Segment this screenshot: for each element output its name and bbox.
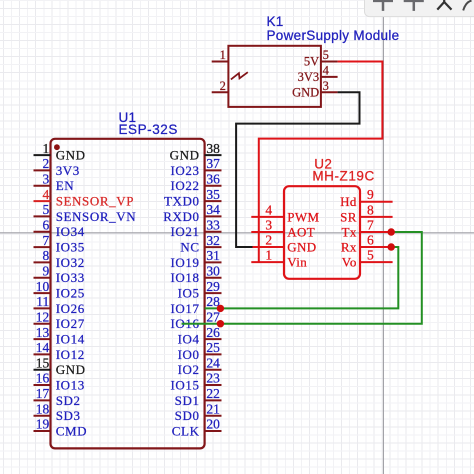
svg-text:EN: EN — [56, 178, 75, 193]
svg-text:IO4: IO4 — [178, 332, 200, 347]
svg-text:SD0: SD0 — [175, 408, 200, 423]
floating toolbar — [365, 0, 474, 17]
wire net IO16 to U2 Tx — [182, 232, 422, 324]
svg-text:12: 12 — [36, 309, 50, 324]
U1 pin 23 IO15 — [170, 371, 221, 393]
svg-text:11: 11 — [36, 294, 49, 309]
svg-text:IO23: IO23 — [170, 163, 199, 178]
svg-text:GND: GND — [56, 148, 86, 163]
svg-text:2: 2 — [220, 79, 226, 93]
U1 pin-1 marker dot — [54, 144, 60, 150]
svg-text:IO22: IO22 — [170, 178, 199, 193]
U1 pin 35 TXD0 — [164, 187, 222, 209]
svg-text:IO12: IO12 — [56, 347, 85, 362]
svg-text:37: 37 — [206, 156, 220, 171]
svg-text:36: 36 — [206, 172, 220, 187]
svg-text:4: 4 — [43, 187, 50, 202]
svg-text:SD3: SD3 — [56, 408, 81, 423]
U1 pin 22 SD1 — [175, 386, 222, 408]
junction dot at U1 pin27 — [217, 320, 224, 327]
svg-text:IO14: IO14 — [56, 332, 85, 347]
U1 pin 10 IO25 — [34, 279, 85, 301]
svg-text:15: 15 — [36, 355, 50, 370]
U1 pin 4 SENSOR_VP — [34, 187, 135, 209]
U1 pin 3 EN — [34, 172, 75, 194]
U1 pin 31 IO19 — [170, 248, 221, 270]
svg-text:29: 29 — [206, 279, 220, 294]
svg-text:Vo: Vo — [342, 255, 357, 270]
K1 pin 3 GND — [292, 79, 337, 100]
U2 pin 4 PWM — [251, 202, 319, 224]
svg-text:30: 30 — [206, 263, 220, 278]
svg-text:7: 7 — [367, 217, 374, 232]
K1 pin 2 — [212, 79, 229, 93]
svg-text:19: 19 — [36, 417, 50, 432]
svg-text:IO2: IO2 — [178, 362, 200, 377]
svg-text:33: 33 — [206, 217, 220, 232]
junction dot at U2 Rx — [388, 243, 395, 250]
svg-text:38: 38 — [206, 141, 220, 156]
svg-text:14: 14 — [36, 340, 50, 355]
toolbar pencil icon — [463, 1, 471, 11]
U1 pin 38 GND — [170, 141, 222, 163]
U1 pin 21 SD0 — [175, 401, 222, 423]
svg-text:SENSOR_VP: SENSOR_VP — [56, 194, 134, 209]
svg-text:24: 24 — [206, 355, 220, 370]
svg-text:18: 18 — [36, 401, 50, 416]
U1 pin 29 IO5 — [178, 279, 222, 301]
svg-text:SD2: SD2 — [56, 393, 81, 408]
svg-text:5: 5 — [367, 248, 374, 263]
U2 pin 3 AOT — [251, 217, 315, 239]
svg-text:4: 4 — [265, 202, 272, 217]
wire net IO17 to U2 Rx — [205, 247, 399, 308]
sensor U2 MH-Z19C body — [284, 186, 360, 279]
svg-text:3: 3 — [265, 217, 272, 232]
svg-text:IO15: IO15 — [170, 377, 199, 392]
svg-text:2: 2 — [265, 232, 272, 247]
svg-text:SR: SR — [340, 209, 357, 224]
U1 pin 15 GND — [34, 355, 86, 377]
svg-text:5: 5 — [43, 202, 50, 217]
svg-text:IO34: IO34 — [56, 224, 85, 239]
svg-text:8: 8 — [43, 248, 50, 263]
U2 pin 9 Hd — [340, 187, 393, 209]
K1 transformer zigzag symbol — [231, 72, 248, 79]
svg-text:Hd: Hd — [340, 194, 357, 209]
U1 pin 30 IO18 — [170, 263, 221, 285]
svg-text:5V: 5V — [304, 55, 319, 69]
op U1 ESP-32S body — [51, 139, 205, 449]
K1 pin 4 3V3 — [298, 64, 338, 85]
junction dot at U2 Tx — [388, 228, 395, 235]
svg-text:16: 16 — [36, 371, 50, 386]
U1 pin 33 IO21 — [170, 217, 221, 239]
U1 pin 5 SENSOR_VN — [34, 202, 137, 224]
U1 pin 11 IO26 — [34, 294, 85, 316]
svg-text:9: 9 — [367, 187, 374, 202]
wire GND net: K1 pin3 to U2 pin2 — [236, 92, 359, 247]
svg-text:9: 9 — [43, 263, 50, 278]
svg-text:21: 21 — [206, 401, 220, 416]
svg-text:3: 3 — [323, 79, 329, 93]
svg-text:PWM: PWM — [287, 209, 319, 224]
svg-text:AOT: AOT — [287, 224, 315, 239]
svg-text:IO5: IO5 — [178, 286, 200, 301]
svg-text:Vin: Vin — [287, 255, 307, 270]
U2 pin 2 GND — [253, 232, 317, 254]
svg-text:IO0: IO0 — [178, 347, 200, 362]
svg-text:7: 7 — [43, 233, 50, 248]
svg-text:PowerSupply Module: PowerSupply Module — [267, 28, 400, 43]
svg-text:25: 25 — [206, 340, 220, 355]
U1 pin 1 GND — [34, 141, 86, 163]
U1 pin 25 IO0 — [178, 340, 222, 362]
U1 pin 20 CLK — [172, 417, 222, 439]
svg-text:IO18: IO18 — [170, 270, 199, 285]
svg-text:Rx: Rx — [341, 239, 357, 254]
svg-text:ESP-32S: ESP-32S — [119, 122, 178, 137]
svg-text:IO26: IO26 — [56, 301, 85, 316]
U2 pin 8 SR — [340, 202, 393, 224]
svg-text:10: 10 — [36, 279, 50, 294]
svg-text:Tx: Tx — [342, 224, 357, 239]
U1 pin 9 IO33 — [34, 263, 85, 285]
U2 pin 5 Vo — [342, 248, 393, 270]
U1 pin 8 IO32 — [34, 248, 85, 270]
toolbar crosshair icon 2 — [404, 0, 424, 11]
svg-text:3V3: 3V3 — [298, 70, 320, 84]
svg-text:CLK: CLK — [172, 423, 200, 438]
svg-text:TXD0: TXD0 — [164, 194, 200, 209]
svg-text:IO32: IO32 — [56, 255, 85, 270]
U2 pin 1 Vin — [251, 248, 307, 270]
svg-text:SENSOR_VN: SENSOR_VN — [56, 209, 137, 224]
U1 pin 6 IO34 — [34, 217, 85, 239]
K1 pin 5 5V — [304, 48, 338, 68]
U1 pin 19 CMD — [34, 417, 88, 439]
svg-text:34: 34 — [206, 202, 220, 217]
svg-text:4: 4 — [323, 64, 330, 78]
svg-text:22: 22 — [206, 386, 220, 401]
svg-text:6: 6 — [367, 232, 374, 247]
U1 pin 12 IO27 — [34, 309, 85, 331]
sheet axis horizontal line — [0, 232, 474, 234]
U1 pin 7 IO35 — [34, 233, 85, 255]
svg-text:NC: NC — [180, 240, 199, 255]
svg-text:1: 1 — [265, 248, 272, 263]
U1 pin 27 IO16 — [170, 309, 220, 331]
U1 pin 32 NC — [180, 233, 221, 255]
svg-text:20: 20 — [206, 417, 220, 432]
wire 5V net: K1 pin5 to U2 left pins — [259, 62, 383, 263]
U1 pin 34 RXD0 — [163, 202, 221, 224]
svg-text:3: 3 — [43, 172, 50, 187]
svg-text:1: 1 — [220, 48, 226, 62]
U2 pin 6 Rx — [341, 232, 393, 254]
svg-text:IO35: IO35 — [56, 240, 85, 255]
U1 pin 14 IO12 — [34, 340, 85, 362]
svg-text:IO21: IO21 — [170, 224, 199, 239]
svg-text:3V3: 3V3 — [56, 163, 80, 178]
U1 pin 36 IO22 — [170, 172, 221, 194]
U1 pin 18 SD3 — [34, 401, 81, 423]
svg-text:17: 17 — [36, 386, 50, 401]
svg-text:GND: GND — [56, 362, 86, 377]
toolbar crosshair icon 1 — [373, 0, 393, 11]
svg-text:26: 26 — [206, 325, 220, 340]
sheet axis vertical line — [382, 0, 384, 474]
svg-text:2: 2 — [43, 156, 50, 171]
svg-text:GND: GND — [292, 86, 319, 100]
svg-text:5: 5 — [323, 48, 329, 62]
svg-text:13: 13 — [36, 325, 50, 340]
svg-text:32: 32 — [206, 233, 220, 248]
svg-text:MH-Z19C: MH-Z19C — [312, 168, 374, 183]
U1 pin 13 IO14 — [34, 325, 85, 347]
power module K1 body — [228, 46, 321, 107]
toolbar fork icon — [437, 0, 451, 10]
svg-text:IO13: IO13 — [56, 377, 85, 392]
svg-text:CMD: CMD — [56, 423, 87, 438]
svg-text:IO25: IO25 — [56, 286, 85, 301]
K1 pin 1 — [212, 48, 229, 62]
svg-text:8: 8 — [367, 202, 374, 217]
U1 pin 16 IO13 — [34, 371, 85, 393]
svg-text:IO27: IO27 — [56, 316, 85, 331]
junction dot at U1 pin28 — [217, 305, 224, 312]
U1 pin 26 IO4 — [178, 325, 222, 347]
svg-text:31: 31 — [206, 248, 220, 263]
svg-text:IO17: IO17 — [170, 301, 199, 316]
svg-text:1: 1 — [43, 141, 50, 156]
svg-text:IO19: IO19 — [170, 255, 199, 270]
svg-text:GND: GND — [287, 239, 316, 254]
U1 pin 17 SD2 — [34, 386, 81, 408]
svg-text:RXD0: RXD0 — [163, 209, 199, 224]
svg-text:23: 23 — [206, 371, 220, 386]
svg-text:SD1: SD1 — [175, 393, 200, 408]
U1 pin 2 3V3 — [34, 156, 80, 178]
U2 pin 7 Tx — [342, 217, 393, 239]
svg-text:35: 35 — [206, 187, 220, 202]
svg-text:6: 6 — [43, 217, 50, 232]
svg-text:K1: K1 — [267, 14, 284, 29]
U1 pin 37 IO23 — [170, 156, 221, 178]
U1 pin 28 IO17 — [170, 294, 220, 316]
U1 pin 24 IO2 — [178, 355, 222, 377]
svg-text:GND: GND — [170, 148, 200, 163]
svg-text:IO33: IO33 — [56, 270, 85, 285]
